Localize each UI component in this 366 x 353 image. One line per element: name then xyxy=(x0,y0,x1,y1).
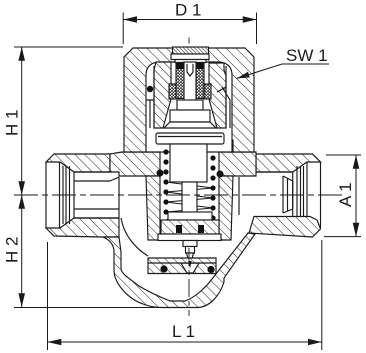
gland nut hatched left xyxy=(154,62,171,128)
left cavity opening xyxy=(110,154,119,218)
spring retainer xyxy=(168,212,212,220)
mushroom stack xyxy=(177,100,203,110)
SW1 arrow xyxy=(237,72,250,79)
right bore lines xyxy=(256,172,293,209)
L1 dimension line xyxy=(48,341,322,343)
A1 dimension line xyxy=(355,155,357,237)
needle xyxy=(187,253,194,264)
bowl shell hatched xyxy=(103,233,255,308)
spring xyxy=(166,182,213,218)
o-ring upper left xyxy=(147,86,153,92)
vertical centerline top xyxy=(188,38,190,44)
L1 arrows xyxy=(48,339,62,346)
packing columns xyxy=(176,63,184,99)
A1 extension lines xyxy=(324,155,361,237)
inlet passage curve xyxy=(121,218,148,256)
H1 extension line top xyxy=(14,46,123,48)
D1 extension lines xyxy=(123,13,256,45)
body upper-right shelf xyxy=(219,152,256,176)
svg-text:L 1: L 1 xyxy=(172,322,195,341)
spring dots left xyxy=(163,149,170,224)
gland nut hatched right xyxy=(209,63,226,128)
horizontal centerline xyxy=(14,194,345,196)
body upper-left shelf xyxy=(110,152,160,176)
H1/H2 dimension line xyxy=(21,47,23,307)
right socket bottom wall xyxy=(249,217,321,238)
left neck wall xyxy=(146,176,160,240)
H1 arrows xyxy=(18,47,25,61)
knurled adjusting disc xyxy=(173,47,209,54)
left bore lines xyxy=(74,172,119,218)
A1 arrows xyxy=(353,155,360,169)
vertical centerline bottom xyxy=(188,248,190,316)
right neck wall xyxy=(219,176,233,240)
piston below flange xyxy=(170,144,207,182)
large flange xyxy=(156,133,224,144)
L1 extension lines xyxy=(48,240,322,350)
channel lines left xyxy=(146,66,154,128)
svg-text:SW 1: SW 1 xyxy=(286,46,328,65)
left socket bottom wall xyxy=(46,218,119,237)
stem nut xyxy=(183,241,197,247)
cavity right wall line xyxy=(238,177,240,215)
needle tip over funnel xyxy=(188,261,191,269)
left socket face line xyxy=(45,162,47,228)
left socket top wall xyxy=(46,154,110,172)
right bore funnel xyxy=(283,176,293,213)
seat bore funnel xyxy=(181,263,199,273)
cap outer wall xyxy=(124,48,254,152)
right socket top wall xyxy=(256,154,321,172)
D1 arrows xyxy=(123,16,137,23)
packing black squares xyxy=(176,225,182,233)
right socket thread lines xyxy=(293,162,307,217)
centerline tick left xyxy=(14,194,33,196)
lower stem xyxy=(182,182,197,240)
svg-text:D 1: D 1 xyxy=(175,1,201,20)
right socket face line xyxy=(320,162,322,228)
svg-text:H 2: H 2 xyxy=(3,237,22,263)
svg-text:H 1: H 1 xyxy=(3,110,22,136)
seat o-rings xyxy=(160,265,167,272)
stem top xyxy=(184,62,196,104)
seat plate xyxy=(148,258,216,274)
D1 dimension line xyxy=(123,19,256,21)
H2 extension line bottom xyxy=(14,307,162,309)
svg-text:A 1: A 1 xyxy=(336,182,355,207)
cap inner cavity xyxy=(146,62,232,152)
o-rings mid xyxy=(157,170,164,177)
bushing flange xyxy=(158,234,221,241)
left socket thread lines xyxy=(60,162,75,228)
guide bushing xyxy=(161,220,219,234)
washer under disc xyxy=(171,54,209,60)
SW1 leader xyxy=(237,64,330,79)
channel lines right xyxy=(217,66,230,128)
spring dots right xyxy=(210,155,216,224)
H2 arrows xyxy=(18,195,25,209)
